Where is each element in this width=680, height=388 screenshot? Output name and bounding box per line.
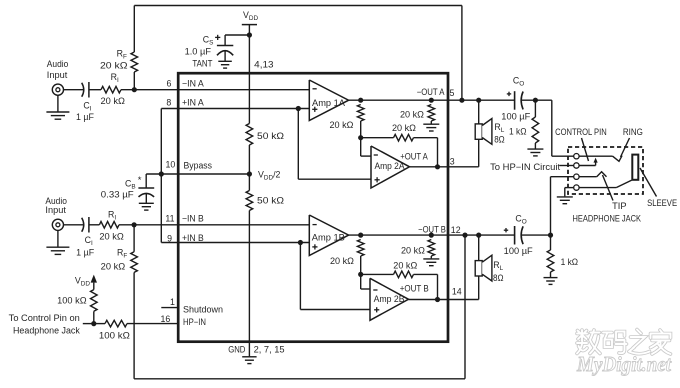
label C1 1uF (channel A)	[76, 101, 95, 122]
node speaker A junction	[476, 98, 481, 103]
svg-text:*: *	[138, 175, 142, 186]
svg-text:12: 12	[451, 225, 461, 235]
svg-text:4,13: 4,13	[254, 60, 273, 70]
svg-text:+OUT A: +OUT A	[400, 152, 428, 162]
node VDD junction	[247, 32, 252, 37]
callout line RING	[621, 138, 630, 157]
wire divider to GND pins 2,7,15	[248, 211, 250, 357]
wire R2 to -IN B pin 11 into Amp1B	[119, 224, 309, 226]
ground at jack J1	[46, 95, 69, 119]
label Bypass	[184, 161, 213, 171]
label Shutdown	[183, 305, 223, 315]
wire R1 to -IN A pin 6 into Amp1A	[121, 89, 309, 91]
ground GND 2,7,15	[242, 357, 256, 364]
node feedback B junction	[462, 233, 467, 238]
label CO + 100uF (channel B)	[504, 214, 534, 256]
label VDD/2	[258, 170, 281, 182]
resistor 20k internal (Amp2A input)	[357, 105, 364, 138]
jack control pin contact	[579, 158, 598, 166]
label CO + 100uF (channel A)	[501, 75, 531, 121]
svg-text:Amp 2A: Amp 2A	[375, 161, 405, 171]
label RING	[623, 127, 643, 137]
svg-text:20 kΩ: 20 kΩ	[101, 262, 126, 272]
op-amp Amp 1A	[309, 80, 348, 121]
node Amp2A feedback junction	[435, 164, 440, 169]
svg-text:100 µF: 100 µF	[501, 111, 531, 121]
pin 9 label	[167, 233, 172, 243]
node Amp2B inverting node	[358, 272, 363, 277]
jack tip contact arm	[579, 172, 606, 177]
ground at jack J2	[46, 230, 69, 254]
svg-text:2, 7, 15: 2, 7, 15	[254, 345, 285, 355]
label 50 kOhm lower	[257, 195, 284, 205]
node VDD/2	[247, 171, 252, 176]
svg-text:−OUT B: −OUT B	[418, 224, 446, 234]
label 100 kOhm (pull-up)	[57, 295, 87, 305]
svg-text:To Control Pin on: To Control Pin on	[9, 313, 80, 323]
pin 12 label	[451, 225, 461, 235]
svg-text:CONTROL PIN: CONTROL PIN	[555, 127, 607, 137]
resistor 1k (channel A headphone)	[532, 100, 539, 148]
svg-text:1 µF: 1 µF	[76, 247, 95, 257]
label TIP	[612, 201, 627, 211]
label +OUT A	[400, 152, 428, 162]
label VDD	[243, 10, 258, 22]
node -IN A junction	[132, 87, 137, 92]
watermark shuzhijia characters (stroke art)	[577, 330, 671, 355]
wire +IN B to Amp2B noninverting input	[300, 243, 370, 310]
resistor RF 20k (channel B feedback)	[131, 225, 138, 273]
svg-text:11: 11	[165, 213, 174, 223]
resistor 20k internal (Amp2A feedback)	[361, 134, 438, 166]
svg-text:TIP: TIP	[612, 201, 627, 211]
svg-text:50 kΩ: 50 kΩ	[257, 131, 284, 141]
label +IN B	[182, 233, 204, 243]
svg-text:Shutdown: Shutdown	[183, 305, 223, 315]
svg-text:10: 10	[166, 160, 176, 170]
svg-text:20 kΩ: 20 kΩ	[393, 260, 417, 270]
label Amp 1B	[312, 232, 345, 242]
op-amp Amp 2B	[370, 278, 409, 320]
label +OUT B	[400, 284, 429, 294]
resistor 50k upper (internal divider)	[246, 124, 253, 146]
capacitor C2 1uF (channel B input coupling)	[82, 217, 89, 233]
node Amp2B feedback junction	[435, 297, 440, 302]
wire jack J2 to C2	[64, 224, 84, 226]
label 20 kOhm (to ground A)	[400, 110, 424, 120]
svg-text:−OUT A: −OUT A	[417, 87, 445, 97]
jack ring contact arm	[579, 156, 622, 162]
audio input jack J2 (channel B)	[52, 219, 63, 230]
svg-text:1.0 µF: 1.0 µF	[185, 47, 212, 57]
callout line CONTROL PIN	[582, 138, 589, 161]
wire feedback top (channel A, -IN A to -OUT A)	[134, 6, 462, 101]
jack contact 4 (sleeve ground)	[574, 185, 579, 190]
svg-text:+OUT B: +OUT B	[400, 284, 429, 294]
svg-text:TANT: TANT	[192, 58, 213, 68]
jack plug sleeve bar	[632, 155, 638, 180]
svg-text:20 kΩ: 20 kΩ	[100, 60, 128, 70]
svg-text:8Ω: 8Ω	[493, 273, 504, 283]
headphone jack dashed outline	[568, 147, 643, 194]
label CB * 0.33uF	[101, 175, 142, 200]
node +IN A branch	[296, 106, 301, 111]
node Amp1A output	[358, 98, 363, 103]
svg-text:50 kΩ: 50 kΩ	[257, 195, 284, 205]
wire VDD to CS	[225, 35, 249, 46]
ground at jack sleeve	[557, 197, 573, 204]
wire +IN A to Amp2A noninverting input	[298, 109, 371, 180]
label VDD (shutdown)	[75, 275, 90, 287]
wire +OUT A pin 3	[410, 139, 479, 167]
svg-text:8: 8	[166, 97, 171, 107]
label -IN A	[182, 78, 204, 88]
resistor 100k to HP-IN	[94, 320, 178, 327]
svg-text:SLEEVE: SLEEVE	[647, 198, 677, 208]
svg-text:Amp 1A: Amp 1A	[312, 98, 345, 108]
svg-text:100 kΩ: 100 kΩ	[57, 295, 87, 305]
ground at 1k A	[527, 149, 543, 156]
wire VDD pin 4,13 into IC	[248, 35, 250, 124]
label RF 20k (channel B)	[101, 248, 128, 272]
node Amp1B output	[358, 233, 363, 238]
label Amp 2A	[375, 161, 405, 171]
svg-text:Headphone Jack: Headphone Jack	[13, 325, 80, 335]
label HEADPHONE JACK	[573, 214, 642, 224]
wire C2 to R2	[89, 224, 100, 226]
svg-text:RING: RING	[623, 127, 643, 137]
node CO B output junction	[548, 233, 553, 238]
pin 10 label	[166, 160, 176, 170]
svg-text:20 kΩ: 20 kΩ	[330, 120, 354, 130]
wire divider mid	[248, 145, 250, 191]
wire Amp2B inverting input	[361, 274, 370, 289]
svg-text:9: 9	[167, 233, 172, 243]
watermark MyDigit.net	[576, 352, 672, 376]
svg-text:Audio: Audio	[47, 59, 69, 69]
svg-text:100 kΩ: 100 kΩ	[99, 330, 130, 340]
svg-text:20 kΩ: 20 kΩ	[401, 246, 425, 256]
power VDD symbol	[242, 25, 257, 35]
callout line TIP	[603, 175, 614, 201]
jack contact 3 (B output / tip)	[574, 174, 579, 179]
capacitor CB 0.33uF (bypass)	[138, 174, 154, 203]
wire jack J1 to C1	[64, 89, 84, 91]
label R2 20k (channel B)	[99, 210, 124, 242]
svg-text:5: 5	[450, 88, 455, 98]
pin 6 label	[167, 79, 172, 89]
wire Bypass pin 10	[146, 173, 249, 175]
node 20k-to-ground tap A	[429, 98, 434, 103]
ground internal (channel B)	[423, 259, 439, 266]
svg-text:Input: Input	[47, 70, 68, 80]
svg-text:Amp 2B: Amp 2B	[374, 294, 405, 304]
svg-text:20 kΩ: 20 kΩ	[400, 110, 424, 120]
label 1 kOhm (channel B)	[561, 257, 579, 267]
jack sleeve path	[579, 180, 631, 187]
pin 14 label	[452, 286, 462, 296]
label 50 kOhm upper	[257, 131, 284, 141]
wire to control pin stub	[83, 323, 94, 325]
wire CO B to jack	[522, 234, 551, 236]
pin 16 label	[161, 314, 171, 324]
op-amp Amp 1B	[309, 215, 348, 256]
label 20 kOhm (to ground B)	[401, 246, 425, 256]
node speaker B junction	[476, 233, 481, 238]
audio input jack J1 (channel A)	[52, 84, 63, 95]
svg-text:Amp 1B: Amp 1B	[312, 232, 345, 242]
svg-text:6: 6	[167, 79, 172, 89]
svg-text:1: 1	[170, 297, 175, 307]
capacitor CO 100uF (channel B output)	[515, 226, 524, 245]
label -OUT B	[418, 224, 446, 234]
svg-text:20 kΩ: 20 kΩ	[330, 256, 354, 266]
capacitor C1 1uF (channel A input coupling)	[82, 82, 89, 98]
svg-text:8Ω: 8Ω	[494, 134, 505, 144]
wire C1 to R1	[89, 89, 101, 91]
node CO A output junction	[533, 98, 538, 103]
pin 1 stub Shutdown	[161, 307, 178, 309]
svg-text:+IN B: +IN B	[182, 233, 204, 243]
node feedback A junction	[459, 98, 464, 103]
ground at CS	[218, 61, 232, 68]
wire CO A to jack	[522, 100, 574, 156]
label GND 2,7,15	[228, 345, 284, 355]
svg-text:+IN A: +IN A	[182, 98, 204, 108]
pin 11 label	[165, 213, 174, 223]
label Audio Input (channel B)	[45, 196, 67, 215]
capacitor CS 1.0uF TANT (supply bypass)	[217, 46, 233, 62]
label CS + 1.0uF TANT	[185, 35, 221, 69]
svg-text:20 kΩ: 20 kΩ	[392, 123, 416, 133]
svg-text:1 kΩ: 1 kΩ	[561, 257, 579, 267]
label Amp 1A	[312, 98, 345, 108]
label 1 kOhm (channel A)	[509, 127, 527, 137]
label SLEEVE	[647, 198, 677, 208]
label 20 kOhm (Amp2A feedback)	[392, 123, 416, 133]
wire Amp2A inverting input	[361, 138, 371, 156]
resistor 20k internal (Amp2B feedback)	[361, 271, 438, 299]
svg-text:16: 16	[161, 314, 171, 324]
speaker RL 8ohm (channel B)	[475, 255, 492, 281]
resistor 20k internal (Amp2B input)	[357, 240, 364, 275]
label 20 kOhm (Amp2A input)	[330, 120, 354, 130]
svg-text:HEADPHONE JACK: HEADPHONE JACK	[573, 214, 642, 224]
resistor 20k internal to ground (channel A)	[428, 105, 435, 124]
svg-text:Input: Input	[45, 205, 66, 215]
ground at 1k B	[544, 278, 558, 285]
power VDD arrow (shutdown pull-up)	[91, 275, 97, 290]
svg-text:3: 3	[450, 157, 455, 167]
op-amp IC U1 (LM4863) package outline	[178, 73, 448, 342]
label RL 8ohm (channel A)	[494, 122, 505, 144]
node bypass tie junction	[159, 171, 164, 176]
label CONTROL PIN	[555, 127, 607, 137]
capacitor CO 100uF (channel A output)	[515, 91, 524, 110]
resistor 100k pull-up	[91, 290, 98, 324]
resistor RF 20k (channel A feedback)	[131, 6, 138, 90]
svg-text:14: 14	[452, 286, 462, 296]
pin 3 label	[450, 157, 455, 167]
svg-text:20 kΩ: 20 kΩ	[99, 231, 124, 241]
wire tie line +IN A / Bypass / +IN B	[161, 109, 309, 243]
resistor 1k (channel B headphone)	[547, 235, 554, 277]
svg-text:HP−IN: HP−IN	[183, 317, 206, 327]
svg-text:1 µF: 1 µF	[76, 112, 95, 122]
svg-text:To HP−IN Circuit: To HP−IN Circuit	[490, 162, 561, 172]
wire Amp1B output to -OUT B pin 12 and CO	[349, 234, 515, 236]
label C2 1uF (channel B)	[76, 235, 95, 257]
label To Control Pin on Headphone Jack	[9, 313, 81, 335]
wire contact 4 to ground	[565, 188, 574, 197]
resistor R2 20k (channel B input)	[99, 222, 119, 229]
ground internal (channel A)	[423, 124, 439, 131]
op-amp Amp 2A	[371, 146, 410, 188]
pin 1 label	[170, 297, 175, 307]
wire -OUT A to speaker A	[478, 100, 480, 124]
svg-text:20 kΩ: 20 kΩ	[101, 96, 126, 106]
label 100 kOhm (HP-IN)	[99, 330, 130, 340]
label RF 20k (channel A)	[100, 48, 128, 70]
callout line SLEEVE	[640, 168, 657, 197]
node +IN B branch	[298, 240, 303, 245]
svg-text:GND: GND	[228, 345, 245, 355]
speaker RL 8ohm (channel A)	[475, 119, 492, 145]
wire +IN A pin 8 to Amp1A noninverting input	[161, 108, 309, 110]
svg-text:MyDigit.net: MyDigit.net	[576, 352, 672, 376]
node Amp2A inverting node	[358, 135, 363, 140]
label 20 kOhm (Amp2B input)	[330, 256, 354, 266]
wire -OUT B to speaker B	[478, 235, 480, 261]
label pin 4,13	[254, 60, 273, 70]
label 20 kOhm (Amp2B feedback)	[393, 260, 417, 270]
resistor 50k lower (internal divider)	[246, 191, 253, 211]
label +IN A	[182, 98, 204, 108]
label To HP-IN Circuit	[490, 162, 561, 172]
node control pin node	[91, 321, 96, 326]
pin 8 label	[166, 97, 171, 107]
wire To HP-IN Circuit	[560, 165, 574, 167]
pin 5 label	[450, 88, 455, 98]
svg-text:100 µF: 100 µF	[504, 246, 534, 256]
svg-text:0.33 µF: 0.33 µF	[101, 190, 135, 200]
node -IN B junction	[132, 222, 137, 227]
svg-text:−IN B: −IN B	[182, 214, 204, 224]
jack contact 2 (HP-IN sense)	[574, 163, 579, 168]
resistor 20k internal to ground (channel B)	[428, 240, 435, 259]
jack contact 1 (A output)	[574, 154, 579, 159]
label RL 8ohm (channel B)	[493, 260, 504, 283]
wire +OUT B pin 14	[409, 276, 479, 300]
label -IN B	[182, 214, 204, 224]
label Audio Input (channel A)	[47, 59, 69, 80]
wire Amp1A output to -OUT A pin 5 and CO	[349, 99, 515, 101]
label Amp 2B	[374, 294, 405, 304]
resistor R1 20k (channel A input)	[101, 86, 121, 93]
label R1 20k (channel A)	[101, 72, 126, 106]
ground at CB	[139, 203, 154, 210]
label -OUT A	[417, 87, 445, 97]
svg-text:−IN A: −IN A	[182, 78, 204, 88]
svg-text:1 kΩ: 1 kΩ	[509, 127, 527, 137]
wire feedback bottom (channel B, -IN B to -OUT B)	[134, 235, 465, 379]
node 20k-to-ground tap B	[429, 233, 434, 238]
svg-text:Bypass: Bypass	[184, 161, 213, 171]
wire CO B up to headphone jack tip	[551, 177, 574, 235]
label HP-IN	[183, 317, 206, 327]
